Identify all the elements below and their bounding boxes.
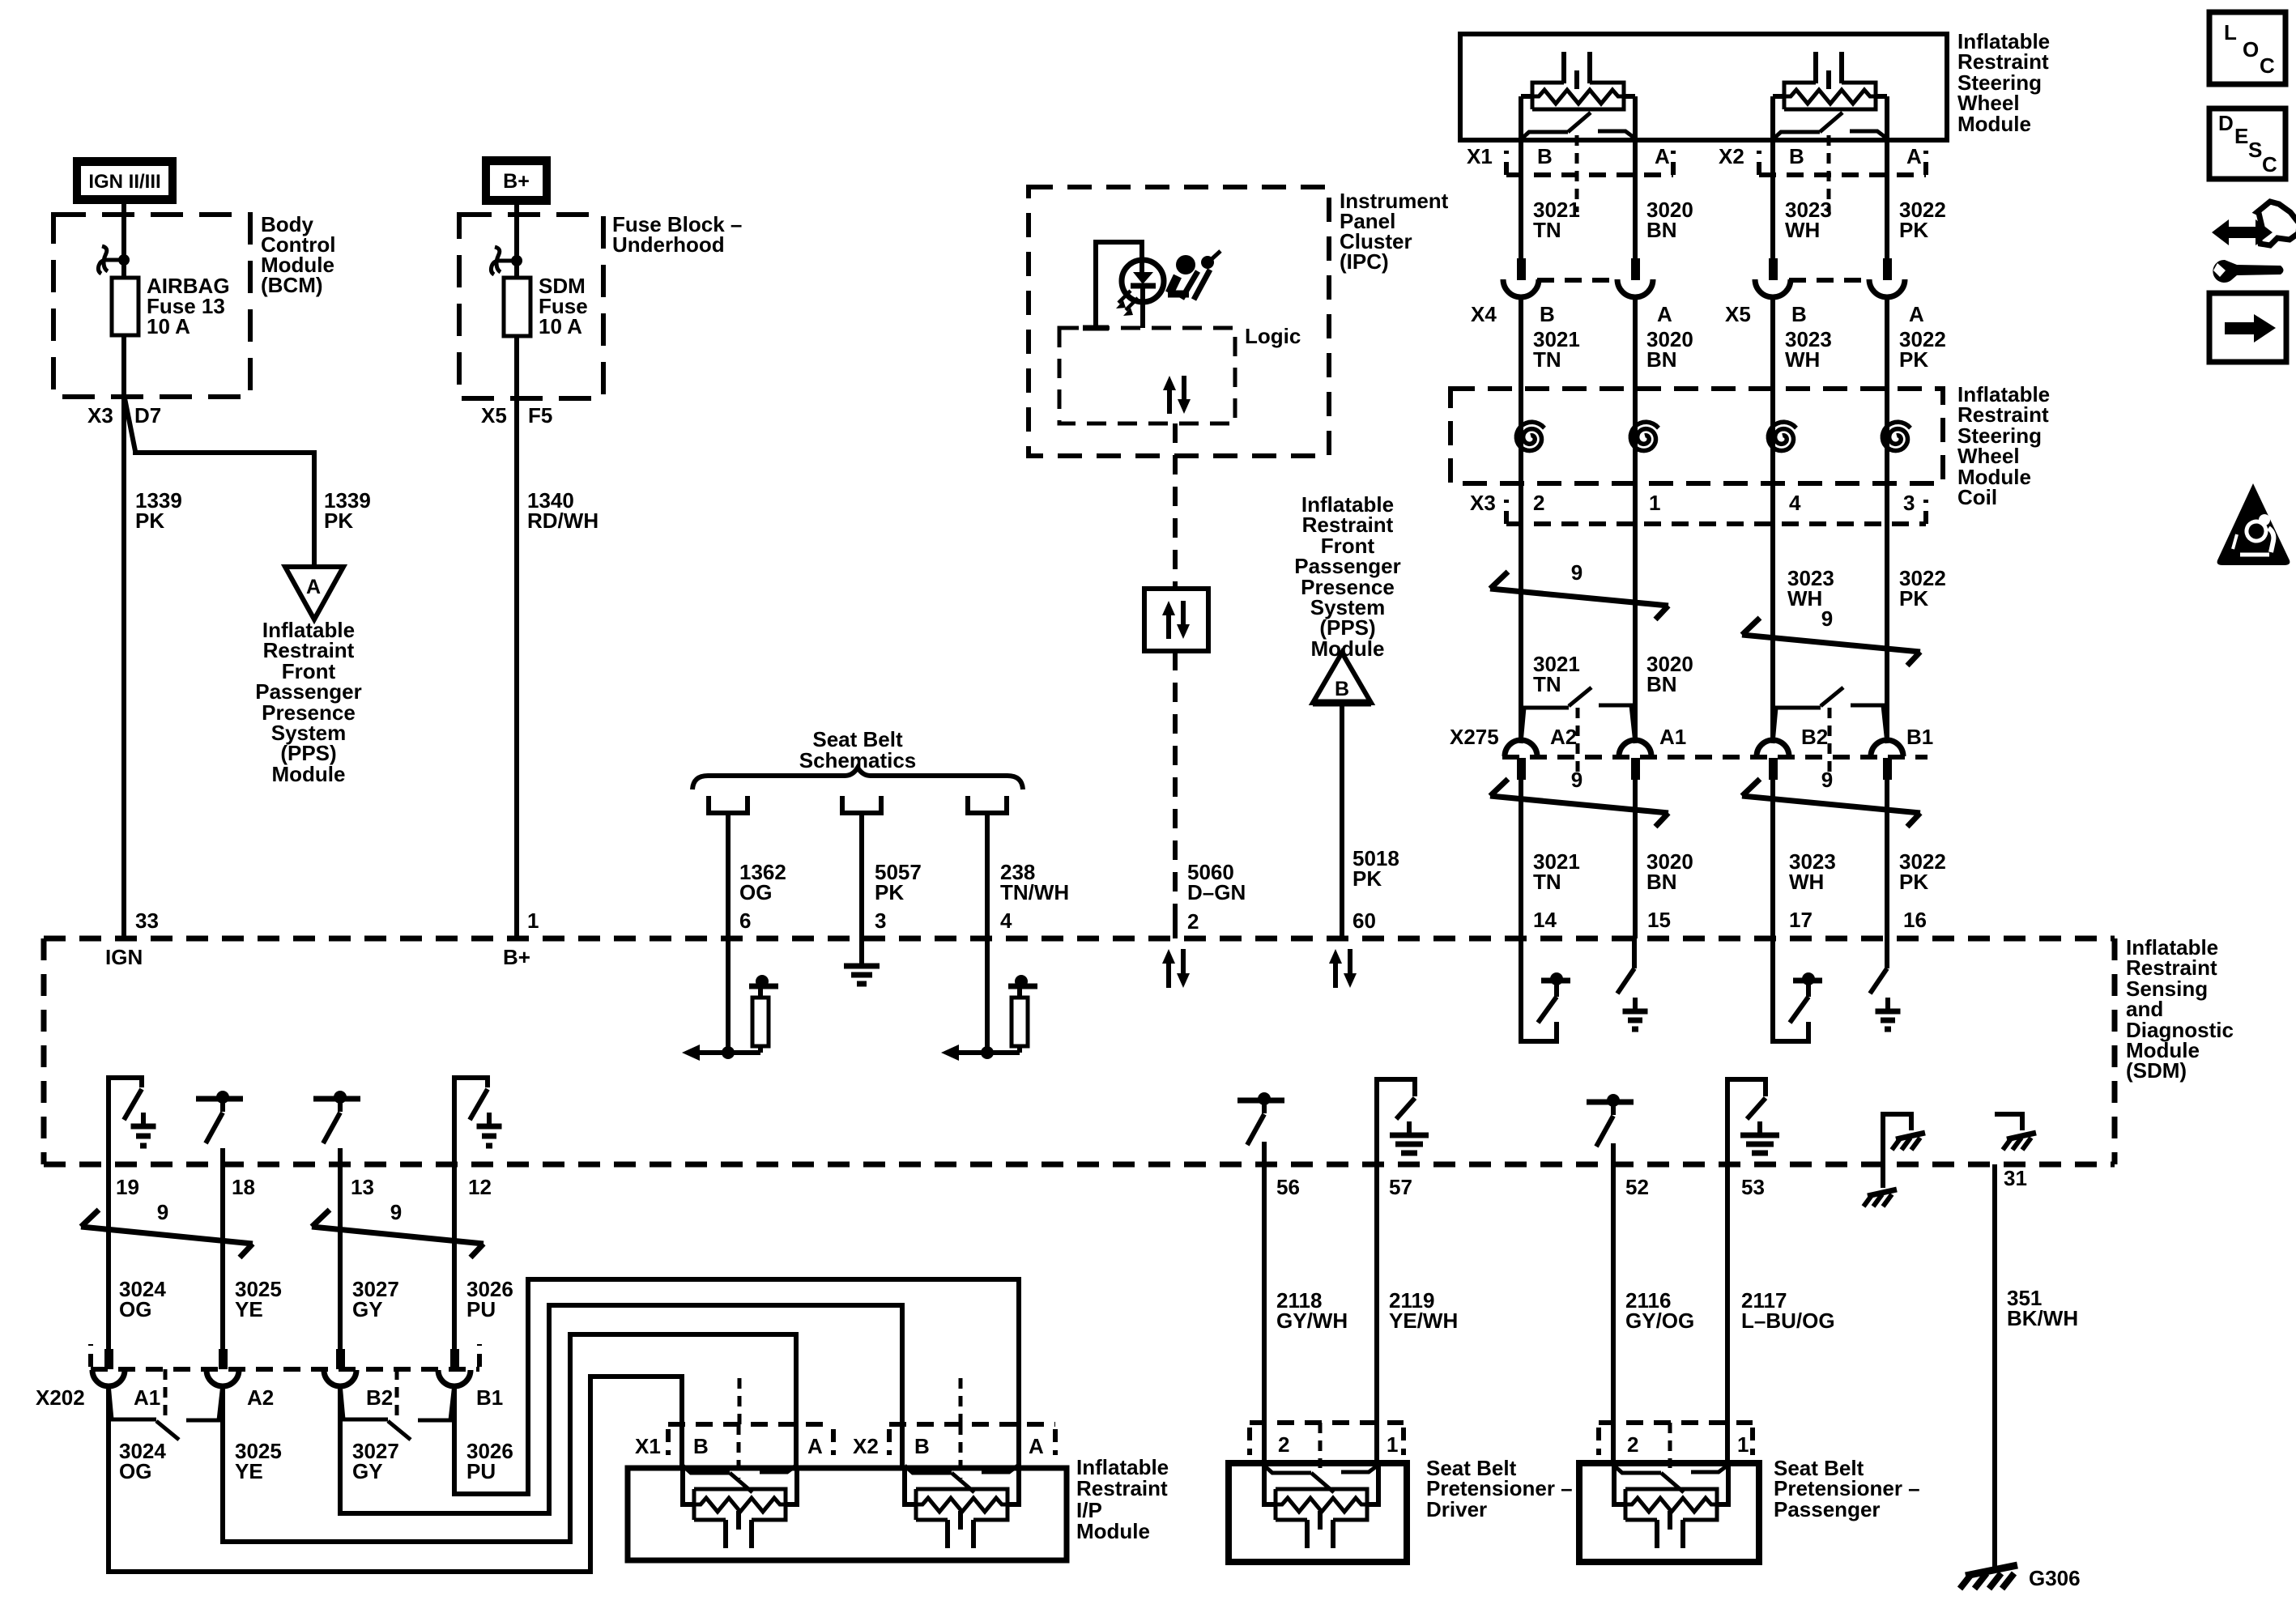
- svg-text:WH: WH: [1789, 870, 1824, 894]
- off-page triangle B from PPS module: [1313, 653, 1371, 703]
- wire B+ to SDM pin 1 (1340 RD/WH): [514, 205, 519, 938]
- svg-text:10 A: 10 A: [147, 314, 190, 338]
- wire WH to SDM 17: [1770, 779, 1775, 938]
- connector labels X3 2 1 4 3: [1470, 491, 1915, 515]
- label 3021 TN row3: [1533, 652, 1580, 696]
- svg-text:PU: PU: [466, 1459, 496, 1483]
- twisted-pair symbol pins 13-12 pair: [312, 1200, 483, 1257]
- SDM bottom pin labels 56 57 52 53 31: [1276, 1166, 2027, 1199]
- connector labels X275 A2 A1 B2 B1: [1450, 725, 1933, 749]
- svg-text:TN: TN: [1533, 672, 1561, 696]
- label 3026 PU: [466, 1277, 513, 1321]
- svg-text:X3: X3: [87, 403, 113, 428]
- wire X2-B into squib: [900, 1424, 905, 1466]
- label Inflatable Restraint I/P Module: [1076, 1455, 1169, 1543]
- connector labels X4 B A X5 B A: [1471, 302, 1924, 326]
- connector label X5 F5: [481, 403, 552, 428]
- fuse AIRBAG Fuse 13 10 A: [112, 278, 138, 335]
- wire 3020 BN X1-A: [1633, 96, 1638, 258]
- fuse block driver switch: [491, 247, 522, 274]
- svg-text:PK: PK: [324, 509, 353, 533]
- SDM pin labels 14 15 17 16: [1533, 908, 1927, 932]
- svg-text:D–GN: D–GN: [1187, 880, 1246, 904]
- svg-text:D: D: [2218, 111, 2234, 135]
- label 351 BK/WH: [2007, 1286, 2078, 1330]
- svg-text:S: S: [2248, 138, 2262, 162]
- svg-text:1: 1: [1649, 491, 1660, 515]
- svg-text:Underhood: Underhood: [612, 232, 725, 257]
- label 3022 PK row4: [1899, 849, 1946, 894]
- SDM switch contact at pin 18: [196, 1091, 243, 1143]
- svg-text:(BCM): (BCM): [261, 273, 323, 297]
- svg-text:PK: PK: [1899, 870, 1928, 894]
- connector X275 terminals and dashed line: [1502, 740, 1928, 780]
- svg-text:A1: A1: [1659, 725, 1686, 749]
- svg-text:(IPC): (IPC): [1340, 249, 1389, 274]
- SDM switch to ground at pin 12: [454, 1078, 502, 1164]
- svg-text:Module: Module: [272, 762, 346, 786]
- connector X2 dashed: [1759, 151, 1926, 175]
- svg-text:A: A: [306, 576, 321, 598]
- Inflatable Restraint Steering Wheel Module Coil dashed box: [1450, 389, 1943, 483]
- connector X275 shorting bar A2-A1: [1521, 687, 1635, 779]
- svg-text:D7: D7: [134, 403, 161, 428]
- svg-text:PK: PK: [1899, 347, 1928, 372]
- svg-text:E: E: [2234, 124, 2248, 148]
- svg-text:X4: X4: [1471, 302, 1497, 326]
- SDM switch at pin 14: [1521, 938, 1570, 1041]
- SDM switch to ground at pin 19: [109, 1078, 156, 1164]
- svg-text:X5: X5: [1725, 302, 1751, 326]
- svg-text:A: A: [807, 1434, 823, 1458]
- svg-text:BK/WH: BK/WH: [2007, 1306, 2078, 1330]
- label Seat Belt Pretensioner - Passenger: [1774, 1456, 1920, 1521]
- label 3022 PK row2: [1899, 327, 1946, 372]
- SDM serial data arrows at pin 2: [1162, 949, 1190, 988]
- svg-text:OG: OG: [739, 880, 772, 904]
- LOC icon box: [2209, 12, 2285, 84]
- label Inflatable Restraint Front Passenger Presence System (PPS) Module: [255, 618, 362, 786]
- wire PK to SDM 16: [1885, 779, 1889, 938]
- svg-text:A: A: [1906, 144, 1922, 168]
- diagnostic steering-wrench icon: [2212, 202, 2296, 283]
- label 3021 TN: [1533, 198, 1580, 242]
- wire 2116 GY/OG from pin 52: [1611, 1164, 1616, 1466]
- DESC icon box: [2209, 109, 2285, 179]
- label 3022 PK: [1899, 198, 1946, 242]
- SDM bottom pin labels 19 18 13 12: [116, 1175, 492, 1199]
- SDM switch to ground at pin 57: [1377, 1079, 1429, 1164]
- label 1339 PK left: [135, 488, 182, 533]
- label 3024 OG: [119, 1277, 166, 1321]
- wire X202-A1 to IP module X1-B: [109, 1377, 682, 1572]
- svg-text:B2: B2: [366, 1385, 393, 1410]
- IPC Logic dashed box: [1059, 328, 1235, 423]
- twisted-pair symbol left pair lower: [1490, 768, 1668, 827]
- Inflatable Restraint I/P Module box: [628, 1468, 1067, 1560]
- svg-text:60: 60: [1352, 908, 1376, 933]
- twisted-pair symbol left pair upper: [1490, 560, 1668, 619]
- svg-text:A: A: [1909, 302, 1924, 326]
- svg-text:19: 19: [116, 1175, 139, 1199]
- svg-text:RD/WH: RD/WH: [527, 509, 598, 533]
- wire 5018 PK: [1340, 703, 1344, 938]
- svg-text:B: B: [1335, 678, 1349, 700]
- label 3023 WH row3: [1787, 566, 1834, 611]
- label 3022 PK row3: [1899, 566, 1946, 611]
- svg-text:Module: Module: [1076, 1519, 1150, 1543]
- SDM wire stub pin 18: [220, 1148, 225, 1164]
- svg-text:L–BU/OG: L–BU/OG: [1741, 1308, 1835, 1333]
- connector label X3 D7: [87, 403, 161, 428]
- svg-text:B: B: [693, 1434, 709, 1458]
- label 3021 TN row4: [1533, 849, 1580, 894]
- svg-text:C: C: [2262, 152, 2277, 177]
- svg-text:Coil: Coil: [1957, 485, 1997, 509]
- label 3025 YE: [235, 1277, 282, 1321]
- label Inflatable Restraint Steering Wheel Module: [1957, 29, 2050, 136]
- SDM wire stub pin 52: [1611, 1143, 1616, 1164]
- connector X202 terminals and dashed line: [91, 1344, 479, 1386]
- off-page connector wire 238 TN/WH: [968, 796, 1007, 938]
- BCM driver switch: [98, 246, 130, 274]
- svg-text:YE: YE: [235, 1459, 263, 1483]
- svg-text:56: 56: [1276, 1175, 1300, 1199]
- Body Control Module (BCM) dashed box: [53, 215, 250, 397]
- wire branch to PPS triangle A (1339 PK): [125, 398, 314, 567]
- label 5018 PK: [1352, 846, 1399, 891]
- connector X4 terminals: [1503, 258, 1653, 297]
- svg-text:2: 2: [1187, 909, 1199, 934]
- wire 3027 GY from pin 13: [338, 1164, 343, 1349]
- svg-text:F5: F5: [528, 403, 552, 428]
- coil winding 3: [1768, 422, 1796, 450]
- svg-text:52: 52: [1625, 1175, 1649, 1199]
- label 2119 YE/WH: [1389, 1288, 1458, 1333]
- wire 5060 D-GN serial data (dashed): [1173, 423, 1178, 938]
- svg-text:L: L: [2224, 20, 2237, 45]
- svg-text:16: 16: [1903, 908, 1927, 932]
- svg-text:3: 3: [1903, 491, 1915, 515]
- connector X5 terminals: [1755, 258, 1905, 297]
- svg-text:12: 12: [468, 1175, 492, 1199]
- coil winding 4: [1882, 422, 1910, 450]
- label 3020 BN row3: [1646, 652, 1693, 696]
- svg-text:GY: GY: [352, 1459, 383, 1483]
- svg-text:B: B: [1537, 144, 1553, 168]
- svg-text:YE/WH: YE/WH: [1389, 1308, 1458, 1333]
- arrow icon box: [2209, 293, 2286, 362]
- twisted-pair symbol right pair upper: [1742, 606, 1920, 666]
- svg-text:WH: WH: [1785, 347, 1820, 372]
- svg-text:A: A: [1657, 302, 1672, 326]
- svg-text:17: 17: [1789, 908, 1813, 932]
- wire X1-B into squib: [679, 1424, 684, 1466]
- SDM switch contact at pin 13: [313, 1091, 360, 1143]
- svg-text:G306: G306: [2029, 1566, 2081, 1590]
- svg-text:WH: WH: [1785, 218, 1820, 242]
- logic up-down arrows: [1163, 376, 1191, 414]
- svg-text:GY: GY: [352, 1297, 383, 1321]
- SDM switch contact at pin 52: [1587, 1094, 1634, 1147]
- Fuse Block - Underhood dashed box: [459, 215, 603, 398]
- label Inflatable Restraint Front Passenger Presence System (PPS) Module right: [1294, 492, 1401, 661]
- label 3027 GY: [352, 1277, 399, 1321]
- wire 2117 L-BU/OG from pin 53: [1725, 1164, 1730, 1466]
- fuse SDM Fuse 10 A: [504, 278, 530, 336]
- svg-text:B1: B1: [1906, 725, 1933, 749]
- svg-text:BN: BN: [1646, 347, 1677, 372]
- svg-text:BN: BN: [1646, 870, 1677, 894]
- svg-text:TN/WH: TN/WH: [1000, 880, 1069, 904]
- svg-text:33: 33: [135, 908, 159, 933]
- connector X202 shorting bar B2-B1: [340, 1369, 454, 1440]
- label 3025 YE lower: [235, 1439, 282, 1483]
- label 3023 WH row2: [1785, 327, 1832, 372]
- label SDM Fuse 10 A: [539, 274, 588, 338]
- wire PK to coil: [1885, 297, 1889, 739]
- airbag caution triangle icon: [2217, 483, 2290, 565]
- svg-text:A2: A2: [1550, 725, 1577, 749]
- Instrument Panel Cluster (IPC) dashed box: [1029, 187, 1329, 456]
- svg-text:B: B: [1789, 144, 1804, 168]
- svg-text:PK: PK: [1899, 586, 1928, 611]
- wire X202-A2 to IP module X1-A: [223, 1334, 796, 1542]
- label Seat Belt Schematics: [799, 727, 917, 772]
- off-page triangle A to PPS module: [285, 567, 343, 619]
- squib driver airbag squib: [1521, 52, 1635, 212]
- label 5060 D-GN: [1187, 860, 1246, 904]
- SDM internal sensor at pin 4: [941, 938, 1037, 1061]
- wire X202-B1 to IP module X2-A: [454, 1279, 1019, 1494]
- wire 3022 PK X2-A: [1885, 96, 1889, 258]
- ground G306: [1960, 1565, 2081, 1590]
- label Instrument Panel Cluster (IPC): [1340, 189, 1449, 274]
- svg-text:PK: PK: [135, 509, 164, 533]
- SDM switch to ground at pin 53: [1727, 1079, 1779, 1164]
- power label IGN II/III: [73, 157, 177, 204]
- svg-text:TN: TN: [1533, 870, 1561, 894]
- coil winding 2: [1630, 422, 1659, 450]
- Seat Belt Pretensioner - Driver box: [1229, 1463, 1407, 1562]
- svg-text:BN: BN: [1646, 672, 1677, 696]
- wire WH to coil: [1770, 297, 1775, 739]
- svg-text:(SDM): (SDM): [2126, 1058, 2187, 1083]
- SDM switch to ground at pin 15: [1617, 938, 1648, 1029]
- wire X2-A into squib: [1016, 1424, 1021, 1466]
- svg-text:PK: PK: [875, 880, 904, 904]
- connector labels X1 B A X2 B A at IP module: [635, 1434, 1044, 1458]
- svg-text:Restraint: Restraint: [1076, 1476, 1168, 1500]
- connector X2 dashed at IP module: [889, 1378, 1055, 1455]
- svg-text:WH: WH: [1787, 586, 1822, 611]
- wire 351 BK/WH from pin 31: [1992, 1164, 1997, 1569]
- svg-text:14: 14: [1533, 908, 1557, 932]
- label 3020 BN row2: [1646, 327, 1693, 372]
- airbag warning person icon: [1168, 251, 1220, 300]
- svg-text:IGN: IGN: [105, 945, 143, 969]
- svg-text:10 A: 10 A: [539, 314, 582, 338]
- svg-text:YE: YE: [235, 1297, 263, 1321]
- wire IGN to SDM pin 33 (1339 PK): [121, 204, 126, 938]
- connector X202 shorting bar A1-A2: [109, 1369, 223, 1440]
- twisted-pair symbol pins 19-18 pair: [81, 1200, 253, 1257]
- wire X1-A into squib: [794, 1424, 799, 1466]
- svg-text:GY/OG: GY/OG: [1625, 1308, 1694, 1333]
- squib passenger pretensioner: [1614, 1465, 1728, 1548]
- svg-text:4: 4: [1789, 491, 1801, 515]
- squib driver pretensioner: [1264, 1465, 1378, 1548]
- svg-text:IGN II/III: IGN II/III: [88, 171, 160, 193]
- SDM pin 31 chassis ground: [1995, 1114, 2036, 1150]
- svg-text:Passenger: Passenger: [1774, 1497, 1881, 1521]
- Inflatable Restraint Steering Wheel Module box: [1460, 34, 1947, 140]
- squib driver airbag squib 2: [1773, 52, 1887, 212]
- label 3023 WH: [1785, 198, 1832, 242]
- svg-text:9: 9: [1571, 768, 1582, 792]
- label 2117 L-BU/OG: [1741, 1288, 1835, 1333]
- svg-text:B: B: [1791, 302, 1807, 326]
- wire 2118 GY/WH from pin 56: [1262, 1164, 1267, 1466]
- connector labels X202 A1 A2 B2 B1: [36, 1385, 503, 1410]
- svg-text:X3: X3: [1470, 491, 1496, 515]
- label 1340 RD/WH: [527, 488, 598, 533]
- svg-text:B+: B+: [503, 945, 530, 969]
- wire 3026 PU from pin 12: [452, 1164, 457, 1349]
- label 3020 BN: [1646, 198, 1693, 242]
- Inflatable Restraint Sensing and Diagnostic Module (SDM) dashed box: [44, 938, 2115, 1164]
- label 1339 PK right: [324, 488, 371, 533]
- svg-text:TN: TN: [1533, 218, 1561, 242]
- svg-text:9: 9: [1821, 606, 1833, 631]
- svg-text:X2: X2: [1719, 144, 1744, 168]
- SDM wire stub pin 56: [1262, 1142, 1267, 1164]
- svg-text:2: 2: [1533, 491, 1544, 515]
- svg-text:2: 2: [1278, 1432, 1289, 1457]
- svg-text:1: 1: [1387, 1432, 1398, 1457]
- label 238 TN/WH: [1000, 860, 1069, 904]
- mech link dashed X1 squib: [737, 1424, 741, 1479]
- off-page connector wire 5057 PK: [842, 796, 881, 938]
- svg-text:X202: X202: [36, 1385, 85, 1410]
- svg-text:Driver: Driver: [1426, 1497, 1487, 1521]
- label AIRBAG Fuse 13 10 A: [147, 274, 230, 338]
- svg-text:O: O: [2243, 37, 2259, 62]
- svg-text:TN: TN: [1533, 347, 1561, 372]
- squib IP module driver-side: [683, 1465, 797, 1548]
- svg-text:A2: A2: [247, 1385, 274, 1410]
- connector X1 dashed: [1506, 151, 1673, 175]
- svg-text:X5: X5: [481, 403, 507, 428]
- label 3027 GY lower: [352, 1439, 399, 1483]
- svg-text:9: 9: [1571, 560, 1582, 585]
- wire TN to SDM 14: [1519, 779, 1523, 938]
- label 3026 PU lower: [466, 1439, 513, 1483]
- svg-text:B: B: [914, 1434, 930, 1458]
- connector X275 shorting bar B2-B1: [1773, 687, 1887, 779]
- svg-text:15: 15: [1647, 908, 1671, 932]
- wire 3021 TN X1-B: [1519, 96, 1523, 258]
- svg-text:31: 31: [2004, 1166, 2027, 1190]
- wire 3023 WH X2-B: [1770, 96, 1775, 258]
- svg-text:18: 18: [232, 1175, 255, 1199]
- svg-text:2: 2: [1627, 1432, 1638, 1457]
- connector pin labels 2 1 passenger pretensioner: [1627, 1432, 1749, 1457]
- mech link dashed X2 squib: [959, 1424, 963, 1479]
- wire 2119 YE/WH from pin 57: [1374, 1164, 1379, 1466]
- Seat Belt Pretensioner - Passenger box: [1579, 1463, 1759, 1562]
- SDM internal ground at pin 3: [844, 938, 880, 984]
- svg-text:B: B: [1540, 302, 1555, 326]
- svg-text:B1: B1: [476, 1385, 503, 1410]
- wire BN to SDM 15: [1633, 779, 1638, 938]
- label 3023 WH row4: [1789, 849, 1836, 894]
- svg-text:1: 1: [1737, 1432, 1749, 1457]
- label Inflatable Restraint Steering Wheel Module Coil: [1957, 382, 2050, 509]
- svg-text:1: 1: [527, 908, 539, 933]
- connector X3 dashed: [1506, 500, 1926, 524]
- svg-text:13: 13: [351, 1175, 374, 1199]
- SDM internal chassis ground loop: [1864, 1114, 1925, 1206]
- label 2116 GY/OG: [1625, 1288, 1694, 1333]
- label Body Control Module (BCM): [261, 212, 335, 297]
- svg-text:Module: Module: [1311, 636, 1385, 661]
- SDM switch to ground at pin 16: [1870, 938, 1901, 1029]
- SDM switch at pin 17: [1773, 938, 1822, 1041]
- twisted-pair symbol right pair lower: [1742, 768, 1920, 827]
- svg-text:PK: PK: [1352, 866, 1382, 891]
- connector dashed at driver pretensioner: [1250, 1423, 1404, 1468]
- svg-text:6: 6: [739, 908, 751, 933]
- power label B+: [482, 156, 551, 205]
- svg-text:3: 3: [875, 908, 886, 933]
- coil winding 1: [1516, 422, 1544, 450]
- connector X1 dashed at IP module: [668, 1378, 833, 1455]
- connector labels X1 B A X2 B A: [1467, 144, 1922, 168]
- svg-text:X1: X1: [635, 1434, 661, 1458]
- label Fuse Block - Underhood: [612, 212, 742, 257]
- svg-text:X2: X2: [853, 1434, 879, 1458]
- label 5057 PK: [875, 860, 922, 904]
- svg-text:9: 9: [1821, 768, 1833, 792]
- svg-text:OG: OG: [119, 1297, 151, 1321]
- svg-text:B+: B+: [503, 170, 530, 193]
- serial data up-down box: [1144, 589, 1208, 651]
- svg-text:PU: PU: [466, 1297, 496, 1321]
- svg-text:B2: B2: [1801, 725, 1828, 749]
- label 2118 GY/WH: [1276, 1288, 1348, 1333]
- label 3024 OG lower: [119, 1439, 166, 1483]
- label Inflatable Restraint Sensing and Diagnostic Module (SDM): [2126, 935, 2234, 1083]
- svg-text:OG: OG: [119, 1459, 151, 1483]
- svg-text:A: A: [1655, 144, 1670, 168]
- airbag indicator LED circuit: [1083, 242, 1164, 328]
- svg-text:X1: X1: [1467, 144, 1493, 168]
- svg-text:9: 9: [390, 1200, 402, 1224]
- svg-text:X275: X275: [1450, 725, 1499, 749]
- svg-text:PK: PK: [1899, 218, 1928, 242]
- svg-text:53: 53: [1741, 1175, 1765, 1199]
- connector pin labels 2 1 driver pretensioner: [1278, 1432, 1398, 1457]
- off-page connector wire 1362 OG: [709, 796, 748, 938]
- svg-text:9: 9: [157, 1200, 168, 1224]
- svg-text:Logic: Logic: [1245, 324, 1301, 348]
- svg-text:A1: A1: [134, 1385, 160, 1410]
- connector dashed at passenger pretensioner: [1599, 1423, 1753, 1468]
- svg-text:BN: BN: [1646, 218, 1677, 242]
- wire BN to coil: [1633, 297, 1638, 739]
- wire 3025 YE from pin 18: [220, 1164, 225, 1349]
